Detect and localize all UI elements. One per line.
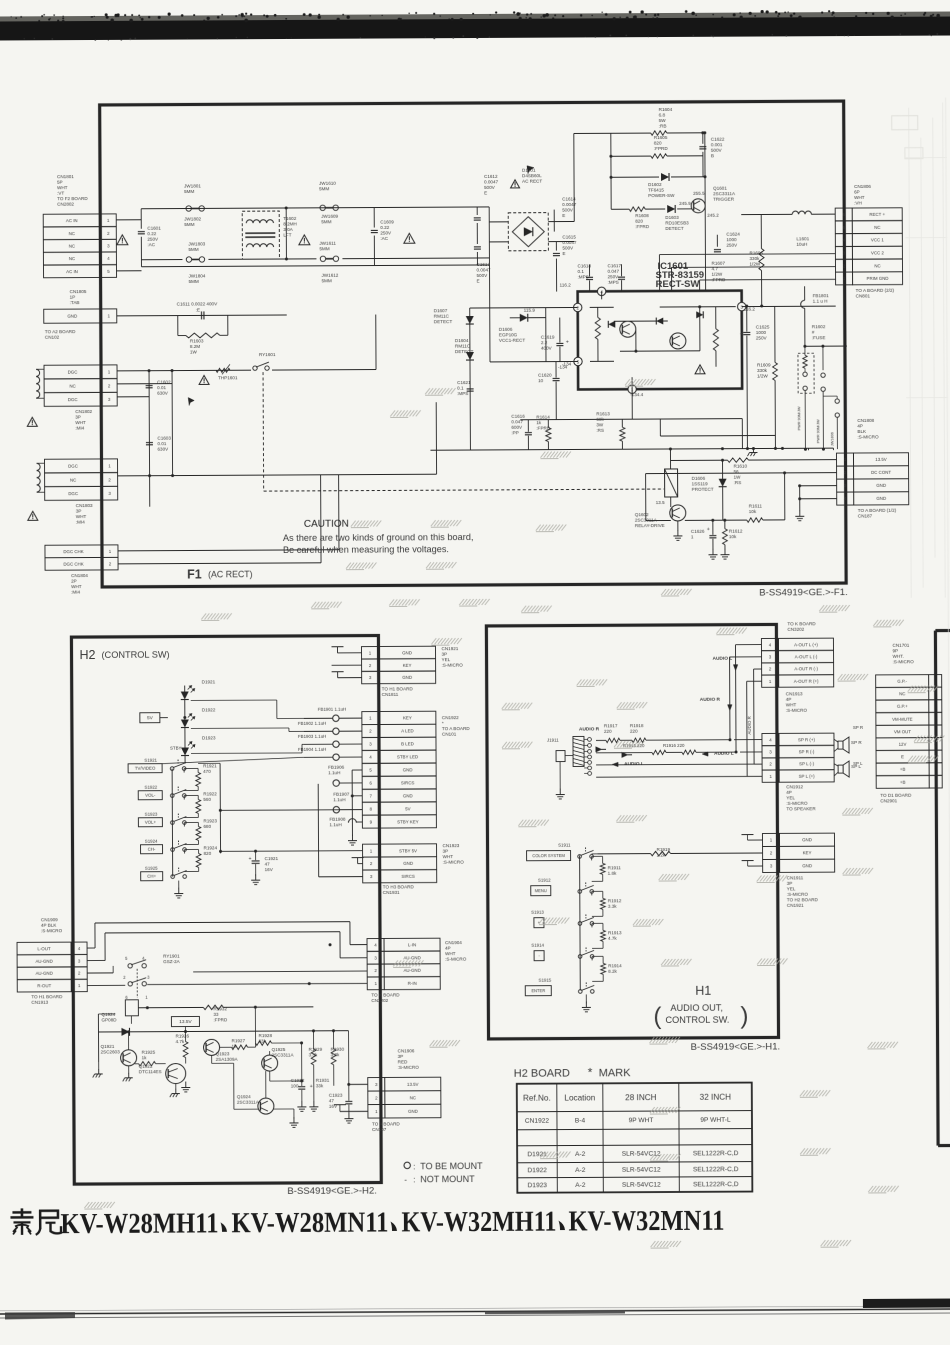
svg-text:R1927: R1927 (232, 1038, 246, 1043)
svg-text:+: + (740, 332, 743, 338)
svg-text:D1923: D1923 (528, 1182, 548, 1189)
svg-text:GP08D: GP08D (101, 1017, 117, 1022)
svg-text:2SC3311A: 2SC3311A (713, 191, 736, 196)
svg-text:YEL: YEL (442, 657, 451, 662)
svg-text:SIRCS: SIRCS (401, 874, 415, 879)
svg-text::FPRD: :FPRD (213, 1017, 227, 1022)
svg-text:FB1906: FB1906 (328, 765, 345, 770)
svg-text:C1624: C1624 (726, 232, 740, 237)
svg-text:AUDIO L: AUDIO L (624, 761, 644, 767)
svg-text:470: 470 (203, 769, 211, 774)
svg-text:5MM: 5MM (184, 189, 194, 194)
svg-text:R1604: R1604 (659, 107, 673, 112)
svg-text:S1922: S1922 (144, 785, 157, 790)
svg-text:GND: GND (403, 793, 413, 798)
svg-text:E: E (901, 754, 904, 759)
svg-text:(CONTROL SW): (CONTROL SW) (101, 650, 169, 660)
svg-text:RY1601: RY1601 (259, 352, 276, 357)
svg-text:13.5V: 13.5V (179, 1019, 192, 1025)
svg-text:R1610: R1610 (734, 464, 748, 469)
svg-text:630V: 630V (157, 391, 169, 396)
svg-text::FUSE: :FUSE (812, 335, 826, 340)
svg-text:500V: 500V (562, 245, 574, 250)
svg-text:A-2: A-2 (575, 1182, 586, 1189)
svg-text:5V: 5V (147, 715, 154, 721)
svg-text:500V: 500V (562, 207, 574, 212)
svg-text:DGC: DGC (68, 397, 78, 402)
svg-text:R1614: R1614 (536, 415, 550, 420)
svg-text:5MM: 5MM (184, 222, 194, 227)
svg-text:FB1907: FB1907 (333, 792, 350, 797)
svg-text:CN1921: CN1921 (787, 903, 804, 908)
svg-text:220: 220 (604, 729, 612, 734)
svg-text:R1923: R1923 (203, 818, 217, 823)
svg-text:2SC3311A: 2SC3311A (237, 1100, 260, 1105)
svg-text:VOL-: VOL- (145, 793, 156, 798)
svg-text:GSZ-2A: GSZ-2A (163, 959, 181, 964)
svg-text:CN107: CN107 (372, 1127, 387, 1132)
svg-text:400V: 400V (541, 346, 553, 351)
svg-text:JW1609: JW1609 (321, 214, 338, 219)
svg-text:D1923: D1923 (202, 735, 216, 740)
svg-text:A-OUT R (+): A-OUT R (+) (794, 679, 819, 684)
svg-text:C1625: C1625 (756, 324, 770, 329)
svg-text:NC: NC (70, 477, 76, 482)
svg-text:1.1uH: 1.1uH (328, 770, 340, 775)
svg-text:SEL1222R-C,D: SEL1222R-C,D (693, 1181, 739, 1188)
svg-text:Q1925: Q1925 (272, 1047, 286, 1052)
svg-text:R1925: R1925 (142, 1050, 156, 1055)
svg-text:250V: 250V (147, 237, 159, 242)
svg-text:CN1803: CN1803 (76, 503, 93, 508)
svg-text::S-MICRO: :S-MICRO (398, 1065, 420, 1070)
svg-text:220: 220 (630, 729, 638, 734)
svg-text:RD10ESB3: RD10ESB3 (665, 220, 689, 225)
svg-text::RS: :RS (596, 428, 604, 433)
svg-text:R1608: R1608 (635, 213, 649, 218)
svg-text:0.047: 0.047 (511, 419, 523, 424)
svg-text:POWER-SW: POWER-SW (648, 193, 675, 198)
svg-text:33: 33 (213, 1012, 219, 1017)
svg-text:L-OUT: L-OUT (37, 946, 51, 951)
svg-text:COLOR SYSTEM: COLOR SYSTEM (532, 853, 565, 858)
svg-text:8.2M: 8.2M (190, 344, 200, 349)
svg-text:255.5: 255.5 (693, 191, 705, 196)
svg-text:+: + (249, 856, 252, 862)
svg-text:13.5V: 13.5V (875, 457, 887, 462)
svg-text:68k: 68k (596, 417, 604, 422)
svg-text:AU-GND: AU-GND (36, 971, 53, 976)
svg-text::S-MICRO: :S-MICRO (442, 663, 464, 668)
svg-text:0.001: 0.001 (711, 142, 723, 147)
svg-text::MI4: :MI4 (75, 426, 84, 431)
svg-text:R1922: R1922 (203, 791, 217, 796)
svg-text:TF6415: TF6415 (648, 188, 664, 193)
svg-text:SP R (-): SP R (-) (799, 749, 815, 754)
svg-text:THP1601: THP1601 (218, 375, 238, 380)
svg-text:245.9: 245.9 (679, 201, 691, 206)
svg-text:CN1911: CN1911 (787, 875, 804, 880)
svg-text:33k: 33k (316, 1083, 324, 1088)
svg-text:C1612: C1612 (484, 174, 498, 179)
svg-text:8.2k: 8.2k (608, 969, 617, 974)
svg-text:CN1922: CN1922 (525, 1118, 550, 1125)
svg-text:AC IN: AC IN (66, 269, 78, 274)
svg-text:C1617: C1617 (607, 263, 621, 268)
svg-text:C1615: C1615 (562, 234, 576, 239)
svg-text:KV-W28MH11: KV-W28MH11 (60, 1207, 218, 1240)
svg-text:820: 820 (654, 141, 662, 146)
svg-text:RM11C: RM11C (434, 314, 450, 319)
svg-text:250V: 250V (608, 274, 620, 279)
svg-text:-134: -134 (562, 361, 572, 366)
svg-text:1W: 1W (190, 349, 198, 354)
svg-text:116.2: 116.2 (560, 282, 572, 287)
svg-text:PWR 90M/JW: PWR 90M/JW (816, 419, 820, 443)
svg-text:5P: 5P (57, 180, 63, 185)
svg-text::MPS: :MPS (457, 391, 468, 396)
svg-text:B-SS4919<GE.>-H1.: B-SS4919<GE.>-H1. (691, 1041, 781, 1052)
svg-text:S1914: S1914 (531, 943, 544, 948)
svg-text:A-2: A-2 (575, 1151, 586, 1158)
svg-text:560: 560 (203, 797, 211, 802)
svg-text:CN1913: CN1913 (31, 1000, 48, 1005)
svg-text:500V: 500V (484, 185, 496, 190)
svg-text:0.01: 0.01 (157, 385, 166, 390)
svg-text:TO F2 BOARD: TO F2 BOARD (57, 196, 88, 201)
svg-text:FB1908: FB1908 (329, 817, 346, 822)
svg-text:R1926: R1926 (176, 1034, 190, 1039)
svg-text:MARK: MARK (599, 1067, 632, 1079)
svg-text:5V: 5V (405, 806, 410, 811)
svg-text::S-MICRO: :S-MICRO (786, 801, 808, 806)
svg-text:S1911: S1911 (558, 843, 571, 848)
svg-text::AC: :AC (380, 236, 388, 241)
svg-text:JW1803: JW1803 (188, 241, 205, 246)
svg-text:CN1931: CN1931 (383, 890, 400, 895)
svg-text:KEY: KEY (403, 716, 412, 721)
svg-text:680: 680 (203, 824, 211, 829)
svg-text:1SS119: 1SS119 (692, 481, 708, 486)
svg-text:WHT: WHT (76, 514, 87, 519)
svg-text::FPRD: :FPRD (654, 146, 668, 151)
svg-text:WHT: WHT (854, 195, 865, 200)
svg-text:S1912: S1912 (538, 878, 551, 883)
svg-text:10k: 10k (749, 509, 757, 514)
svg-text:S1923: S1923 (145, 812, 158, 817)
svg-text:R1929: R1929 (309, 1047, 323, 1052)
svg-text:CN1906: CN1906 (398, 1048, 415, 1053)
svg-text:CN1701: CN1701 (892, 643, 909, 648)
svg-text:STBY 5V: STBY 5V (399, 848, 417, 853)
svg-text:KV-W28MN11: KV-W28MN11 (231, 1206, 388, 1239)
svg-text:+: + (566, 340, 569, 346)
svg-text:5MM: 5MM (321, 219, 331, 224)
svg-text:R1605: R1605 (654, 135, 668, 140)
svg-text:0.1: 0.1 (578, 269, 585, 274)
svg-text:DETECT: DETECT (665, 226, 684, 231)
svg-text:CN102: CN102 (45, 335, 60, 340)
svg-text::RB: :RB (659, 123, 667, 128)
svg-text:5MM: 5MM (189, 279, 199, 284)
svg-text:250V: 250V (756, 335, 768, 340)
svg-text:1W: 1W (734, 475, 742, 480)
svg-text:CN1922: CN1922 (442, 715, 459, 720)
svg-text:KV-W32MH11: KV-W32MH11 (401, 1206, 556, 1239)
svg-text:2P: 2P (71, 579, 77, 584)
svg-text:VM-MUTE: VM-MUTE (892, 717, 913, 722)
svg-text:1000: 1000 (756, 330, 767, 335)
svg-text::TAB: :TAB (70, 300, 80, 305)
svg-text:CN101: CN101 (442, 732, 457, 737)
svg-text:D1921: D1921 (202, 679, 216, 684)
svg-text:LFT: LFT (283, 232, 291, 237)
svg-text:DGC CHK: DGC CHK (63, 549, 83, 554)
svg-text:C1616: C1616 (511, 414, 525, 419)
svg-text:GND: GND (403, 861, 413, 866)
svg-text:CN3202: CN3202 (371, 998, 388, 1003)
svg-text:32 INCH: 32 INCH (700, 1093, 732, 1102)
svg-text:AC IN: AC IN (66, 218, 78, 223)
svg-text::S-MICRO: :S-MICRO (445, 957, 467, 962)
svg-text:L1601: L1601 (796, 236, 809, 241)
svg-text:Ref.No.: Ref.No. (523, 1094, 551, 1103)
svg-text:FB1801: FB1801 (813, 293, 830, 298)
svg-text:R-OUT: R-OUT (37, 983, 51, 988)
svg-text:CN1921: CN1921 (441, 646, 458, 651)
svg-text:RM11C: RM11C (455, 344, 471, 349)
svg-text:Q1602: Q1602 (635, 512, 649, 517)
svg-text:CN1923: CN1923 (443, 843, 460, 848)
svg-text:SEL1222R-C,D: SEL1222R-C,D (693, 1150, 739, 1157)
svg-text:0.0047: 0.0047 (476, 267, 491, 272)
svg-text:RECT +: RECT + (869, 212, 885, 217)
svg-text:D1604: D1604 (455, 338, 469, 343)
svg-text:TO A BOARD (2/2): TO A BOARD (2/2) (856, 288, 895, 293)
svg-text:PROTECT: PROTECT (692, 487, 714, 492)
svg-text:1000: 1000 (726, 237, 737, 242)
svg-text:GND: GND (403, 767, 413, 772)
svg-text:PWR 90M/JW: PWR 90M/JW (797, 406, 801, 430)
svg-text:RY1901: RY1901 (163, 954, 180, 959)
svg-text:0.047: 0.047 (608, 269, 620, 274)
svg-text:TO H3 BOARD: TO H3 BOARD (383, 884, 415, 889)
svg-text:820: 820 (635, 219, 643, 224)
svg-text:3P: 3P (443, 849, 449, 854)
svg-text:3W: 3W (596, 422, 604, 427)
svg-text::S-MICRO: :S-MICRO (41, 928, 63, 933)
svg-text:): ) (740, 1003, 748, 1030)
svg-text:+B: +B (900, 767, 906, 772)
svg-text:AUDIO R: AUDIO R (700, 697, 721, 703)
svg-text:500V: 500V (711, 148, 723, 153)
svg-text:8.2MH: 8.2MH (283, 221, 297, 226)
svg-text::VH: :VH (854, 200, 862, 205)
svg-text:RELAY-DRIVE: RELAY-DRIVE (635, 523, 665, 528)
svg-text:CN1808: CN1808 (857, 418, 874, 423)
svg-text:S1913: S1913 (531, 910, 544, 915)
svg-text:WHT: WHT (786, 702, 797, 707)
svg-text:D1922: D1922 (527, 1167, 547, 1174)
svg-text:S1921: S1921 (144, 758, 157, 763)
svg-text:NC: NC (69, 383, 75, 388)
svg-text:KV-W32MN11: KV-W32MN11 (568, 1205, 724, 1238)
svg-text:G.P.+: G.P.+ (897, 704, 908, 709)
svg-text:10: 10 (538, 378, 544, 383)
svg-text:D1602: D1602 (648, 182, 662, 187)
svg-text:WHT: WHT (71, 584, 82, 589)
svg-text:1P: 1P (70, 295, 76, 300)
svg-text:C1923: C1923 (329, 1093, 343, 1098)
svg-text:6P: 6P (854, 189, 860, 194)
svg-text:6.8: 6.8 (659, 113, 666, 118)
svg-text:RED: RED (398, 1059, 408, 1064)
svg-text:CN1802: CN1802 (75, 409, 92, 414)
svg-text:47: 47 (329, 1098, 335, 1103)
svg-text:4P: 4P (786, 697, 792, 702)
svg-text:C1609: C1609 (380, 219, 394, 224)
svg-text:R1921: R1921 (203, 763, 217, 768)
svg-text:TO A BOARD (1/2): TO A BOARD (1/2) (858, 508, 897, 513)
svg-text:4P BLK: 4P BLK (41, 923, 57, 928)
svg-text:C1921: C1921 (265, 856, 279, 861)
svg-text:CH+: CH+ (147, 874, 156, 879)
svg-text:STBY KEY: STBY KEY (397, 819, 418, 824)
svg-text:D1922: D1922 (202, 707, 216, 712)
svg-text:CH-: CH- (148, 847, 156, 852)
svg-text:VCC1-RECT: VCC1-RECT (499, 338, 526, 343)
svg-text:T1602: T1602 (283, 216, 296, 221)
svg-text:A-OUT L (+): A-OUT L (+) (794, 642, 818, 647)
svg-text:+: + (707, 527, 710, 533)
svg-text:3.0A: 3.0A (283, 227, 293, 232)
svg-text:TV/VIDEO: TV/VIDEO (135, 766, 156, 771)
svg-text:1/2W: 1/2W (712, 272, 723, 277)
svg-text:WHT: WHT (57, 185, 68, 190)
svg-text:250V: 250V (726, 243, 738, 248)
svg-text:R1913: R1913 (608, 930, 622, 935)
svg-text:R1928: R1928 (259, 1033, 273, 1038)
svg-text:STBY LED: STBY LED (397, 754, 418, 759)
svg-text:1/2W: 1/2W (749, 262, 760, 267)
svg-text:H1: H1 (695, 984, 711, 998)
svg-text:630V: 630V (157, 447, 169, 452)
svg-text:4.7k: 4.7k (608, 936, 617, 941)
svg-text:4P: 4P (857, 423, 863, 428)
svg-text:TO A BOARD: TO A BOARD (372, 1121, 400, 1126)
svg-text:EGP10G: EGP10G (499, 332, 518, 337)
svg-text:RECT-SW: RECT-SW (656, 279, 700, 290)
svg-text:(: ( (653, 1003, 661, 1030)
svg-text:AUDIO L: AUDIO L (714, 751, 734, 757)
svg-text:TO SPEAKER: TO SPEAKER (786, 806, 816, 811)
svg-text:CN1805: CN1805 (70, 289, 87, 294)
svg-text:Location: Location (564, 1093, 595, 1102)
svg-text:0.0047: 0.0047 (484, 179, 499, 184)
svg-text:1k: 1k (142, 1055, 148, 1060)
svg-text:*: * (442, 721, 444, 726)
svg-text:CN1804: CN1804 (71, 573, 88, 578)
svg-text:5W: 5W (659, 118, 667, 123)
svg-text:R1917: R1917 (604, 723, 618, 728)
svg-text:A-2: A-2 (575, 1167, 586, 1174)
svg-text:AU-GND: AU-GND (404, 968, 421, 973)
svg-text:5MM: 5MM (319, 186, 329, 191)
svg-text:H2: H2 (79, 648, 95, 662)
svg-text:B-SS4919<GE.>-F1.: B-SS4919<GE.>-F1. (759, 587, 848, 598)
svg-text:NOT MOUNT: NOT MOUNT (420, 1174, 475, 1184)
svg-text:R1613: R1613 (596, 411, 610, 416)
svg-text:R1912: R1912 (608, 898, 622, 903)
svg-text:500V: 500V (477, 273, 489, 278)
svg-text:JW1801: JW1801 (184, 183, 201, 188)
svg-text:5MM: 5MM (319, 246, 329, 251)
svg-text:VCC 1: VCC 1 (871, 238, 885, 243)
svg-text:D1606: D1606 (692, 476, 706, 481)
svg-text:28 INCH: 28 INCH (625, 1093, 657, 1102)
svg-text:DETECT: DETECT (434, 319, 453, 324)
svg-text:G.P.-: G.P.- (897, 679, 907, 684)
svg-text:R1609: R1609 (757, 362, 771, 367)
svg-text:NC: NC (899, 691, 905, 696)
svg-text:+B: +B (900, 780, 906, 785)
svg-text:Q1922: Q1922 (139, 1064, 153, 1069)
svg-text:CN2901: CN2901 (880, 798, 897, 803)
svg-text:R-IN: R-IN (408, 981, 417, 986)
svg-text:TO H2 BOARD: TO H2 BOARD (787, 897, 819, 902)
svg-text:CN1912: CN1912 (786, 784, 803, 789)
svg-text:SP L (-): SP L (-) (799, 761, 814, 766)
svg-text:3P: 3P (398, 1054, 404, 1059)
svg-text:A-OUT L (-): A-OUT L (-) (795, 654, 818, 659)
svg-text::FPRD: :FPRD (635, 224, 649, 229)
svg-text:1.1uH: 1.1uH (333, 797, 345, 802)
svg-text:SP R (+): SP R (+) (798, 737, 815, 742)
svg-text:1k: 1k (536, 420, 542, 425)
svg-text:Q1924: Q1924 (101, 1012, 115, 1017)
svg-text:0.0047: 0.0047 (562, 240, 577, 245)
svg-text:R1919: R1919 (657, 847, 671, 852)
svg-text:YEL: YEL (786, 795, 795, 800)
svg-text:FB1902 1.1uH: FB1902 1.1uH (298, 721, 326, 726)
svg-text:600V: 600V (511, 425, 523, 430)
svg-text:CN1913: CN1913 (786, 691, 803, 696)
svg-text:AC RECT: AC RECT (522, 179, 542, 184)
svg-text::: : (413, 1162, 415, 1171)
svg-text:E: E (477, 278, 480, 283)
svg-text:A-OUT R (-): A-OUT R (-) (794, 666, 818, 671)
svg-text:R1918: R1918 (630, 723, 644, 728)
svg-text:KEY: KEY (403, 663, 412, 668)
svg-text:C1621: C1621 (457, 380, 471, 385)
svg-text:NC: NC (69, 256, 75, 261)
svg-text:R1911: R1911 (608, 865, 622, 870)
svg-text:245.2: 245.2 (707, 213, 719, 218)
svg-text:BLK: BLK (857, 429, 867, 434)
svg-text:1.1uH: 1.1uH (329, 822, 341, 827)
svg-text:JW1610: JW1610 (319, 181, 336, 186)
svg-text:S1924: S1924 (145, 839, 158, 844)
svg-text:TO A2 BOARD: TO A2 BOARD (45, 329, 76, 334)
svg-text:DC CONT: DC CONT (871, 470, 891, 475)
svg-text:1.2k: 1.2k (657, 853, 666, 858)
svg-text:DGC CHK: DGC CHK (63, 562, 83, 567)
svg-text::MI4: :MI4 (76, 520, 85, 525)
svg-text:B-4: B-4 (575, 1118, 586, 1125)
svg-text:R1932: R1932 (213, 1006, 227, 1011)
svg-text:C1601: C1601 (147, 226, 161, 231)
svg-text:2.2: 2.2 (541, 340, 548, 345)
